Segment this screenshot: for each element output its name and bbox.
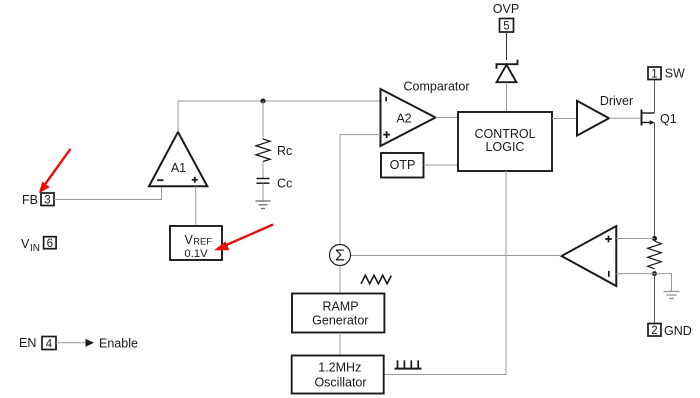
ramp waveform icon: [361, 275, 391, 284]
svg-text:0.1V: 0.1V: [184, 248, 208, 260]
svg-text:1.2MHz: 1.2MHz: [318, 360, 361, 374]
wire A1 noninverting to VREF: [195, 186, 197, 226]
svg-text:A1: A1: [171, 161, 186, 175]
svg-text:Rc: Rc: [277, 144, 292, 158]
pin 6 box: [44, 237, 57, 250]
comparator A2: [381, 89, 436, 146]
wire driver to Q1 gate: [609, 117, 642, 119]
svg-text:V: V: [21, 237, 30, 251]
wire Q1 drain to SW: [654, 80, 656, 114]
current sense comparator: [562, 226, 617, 286]
svg-text:FB: FB: [22, 193, 38, 207]
wire A2 output to control logic: [436, 117, 459, 119]
svg-text:3: 3: [44, 195, 50, 207]
wire control logic to driver: [552, 118, 577, 120]
wire junction to Rc: [262, 101, 264, 139]
svg-text:SW: SW: [665, 67, 685, 81]
wire zener to control logic: [506, 83, 508, 113]
svg-text:GND: GND: [664, 324, 692, 338]
svg-text:LOGIC: LOGIC: [486, 140, 525, 154]
svg-text:Oscillator: Oscillator: [314, 375, 366, 389]
svg-text:6: 6: [47, 238, 53, 250]
junction node sense bottom: [652, 271, 657, 276]
pin 4 box: [42, 337, 56, 351]
svg-text:Cc: Cc: [277, 176, 292, 190]
driver buffer: [577, 101, 609, 136]
svg-text:OTP: OTP: [390, 158, 416, 172]
wire sense comparator minus input: [616, 273, 654, 275]
svg-text:1: 1: [651, 69, 657, 81]
svg-text:4: 4: [46, 339, 53, 351]
ground symbol compensation: [256, 201, 271, 209]
label VIN: [21, 237, 40, 254]
summing node sigma: [330, 245, 351, 266]
wire OTP to control logic: [424, 164, 459, 166]
wire ramp generator to oscillator: [339, 333, 341, 356]
svg-text:Q1: Q1: [660, 112, 677, 126]
clock waveform icon: [395, 360, 422, 368]
svg-text:EN: EN: [19, 336, 36, 350]
svg-text:2: 2: [651, 325, 657, 337]
resistor Rc: [256, 139, 270, 162]
pin 5 box: [500, 19, 514, 33]
wire summing node to A2 noninverting: [340, 135, 381, 245]
wire control logic to oscillator: [384, 171, 506, 375]
svg-text:RAMP: RAMP: [322, 299, 358, 313]
wire A1 output up and right to A2: [178, 101, 381, 132]
transistor Q1: [642, 110, 655, 126]
capacitor Cc: [257, 179, 270, 184]
svg-text:Enable: Enable: [99, 336, 138, 350]
junction node compensation: [261, 99, 266, 104]
svg-text:REF: REF: [193, 236, 212, 246]
pin 2 box: [648, 324, 661, 338]
wire FB to A1 inverting input: [54, 186, 162, 199]
ramp generator block: [292, 294, 384, 333]
svg-text:A2: A2: [396, 112, 411, 126]
wire Cc to ground: [262, 183, 264, 201]
svg-text:5: 5: [503, 21, 509, 33]
wire sense comparator plus input: [616, 238, 654, 240]
svg-text:Comparator: Comparator: [404, 80, 470, 94]
svg-text:OVP: OVP: [493, 2, 519, 16]
wire sense comparator output to summing node: [351, 255, 562, 257]
control logic block: [458, 112, 552, 171]
wire sense bottom to GND pin: [654, 274, 656, 324]
wire pin5 to zener: [506, 32, 508, 60]
ground symbol sense: [664, 292, 680, 299]
red arrow at VREF: [214, 225, 273, 251]
wire Rc to Cc: [262, 162, 264, 179]
wire sense bottom to ground: [655, 274, 672, 292]
svg-text:IN: IN: [30, 243, 40, 254]
wire Q1 source to sense junction: [654, 123, 656, 239]
svg-text:Driver: Driver: [600, 94, 633, 108]
OTP box: [381, 153, 424, 178]
pin 3 box: [41, 193, 54, 207]
svg-text:V: V: [185, 233, 194, 247]
zener diode D1: [497, 60, 518, 82]
wire summing node to ramp generator: [339, 266, 341, 295]
junction node sense top: [652, 236, 657, 241]
VREF 0.1V box: [170, 226, 222, 260]
wire EN to Enable with arrowhead: [56, 339, 94, 347]
op-amp A1: [149, 132, 207, 186]
sense resistor: [648, 241, 662, 269]
svg-text:Σ: Σ: [335, 248, 345, 265]
svg-text:Generator: Generator: [312, 314, 368, 328]
pin 1 box: [648, 67, 661, 81]
red arrow at FB: [39, 149, 71, 193]
oscillator block: [292, 356, 384, 394]
